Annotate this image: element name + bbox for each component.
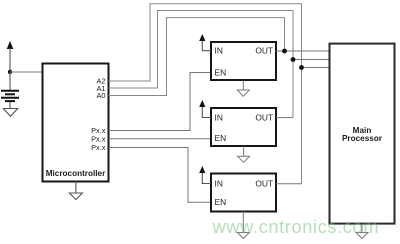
svg-text:Processor: Processor [342,134,383,143]
ground main processor [356,224,368,239]
wire A0 [109,18,285,96]
microcontroller U1 [43,64,109,182]
power arrow VCC left [7,41,14,72]
power arrow U4 [199,166,211,184]
wire OUT1 to main processor [276,50,330,52]
svg-text:OUT: OUT [255,46,273,56]
svg-text:Px.x: Px.x [91,134,106,143]
wire line3 to main processor [302,67,330,69]
svg-text:IN: IN [215,178,223,188]
node dot2 [291,57,296,62]
svg-text:EN: EN [215,197,227,207]
svg-text:IN: IN [215,112,223,122]
wire OUT2 riser [276,117,293,119]
switch U2 [211,42,276,80]
svg-text:OUT: OUT [255,178,273,188]
wire supply to microcontroller [10,71,42,73]
svg-text:EN: EN [215,133,227,143]
wire A1 [109,11,294,118]
wire Px.x to EN2 [109,138,212,140]
svg-text:A0: A0 [96,91,105,100]
svg-text:Px.x: Px.x [91,143,106,152]
node dot3 [299,65,304,70]
svg-text:OUT: OUT [255,112,273,122]
wire Px.x to EN3 [109,148,212,203]
power arrow U2 [199,34,211,51]
battery B1 [1,72,19,109]
wire A2 [109,4,302,184]
ground U3 [238,146,250,162]
ground U4 [237,212,249,239]
svg-text:www.cntronics.com: www.cntronics.com [212,216,380,237]
node supply junction [8,70,12,74]
svg-text:EN: EN [215,68,227,78]
ground U2 [237,81,249,96]
power arrow U3 [199,100,211,118]
node dot1 [282,49,287,54]
wire OUT3 riser [276,183,302,185]
ground battery [3,109,17,117]
svg-text:Microcontroller: Microcontroller [46,169,106,178]
main processor U5 [330,44,395,224]
switch U3 [211,108,276,146]
svg-text:IN: IN [215,46,223,56]
switch U4 [211,174,276,212]
wire Px.x to EN1 [109,73,212,131]
ground microcontroller [69,182,82,200]
wire line2 to main processor [293,59,330,61]
